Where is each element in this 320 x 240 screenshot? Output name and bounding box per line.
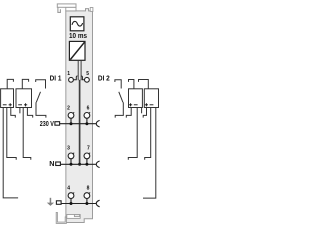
rail continuation hook right (PE) — [96, 200, 99, 207]
wire: G1 stub mid (to N row) — [7, 108, 16, 160]
right circuit — [115, 80, 159, 199]
wire: G2 stub mid (to N row) — [23, 108, 31, 160]
rail continuation hook right (N) — [96, 161, 99, 168]
G2 polarity signs — [18, 103, 27, 106]
module foot notch — [67, 215, 80, 219]
svg-text:2: 2 — [67, 105, 70, 111]
wire: G4 stub left (to L row) — [143, 108, 146, 118]
wire: G2 top hook — [22, 79, 28, 88]
node 6 junction — [85, 122, 88, 125]
G4 polarity signs — [145, 103, 154, 106]
wire: G4 top hook — [139, 80, 149, 89]
switch S2 bottom wire — [115, 102, 123, 117]
wire: G4 stub mid (to N row) — [145, 108, 151, 160]
terminal 1 (DI1 input clamp) — [67, 71, 77, 82]
terminal 7 — [84, 146, 90, 165]
svg-text:DI 1: DI 1 — [50, 74, 62, 83]
wire: G2 stub right (to L row) — [27, 108, 32, 118]
svg-text:8: 8 — [87, 185, 90, 191]
wire: G3 stub mid (to N row) — [128, 108, 137, 160]
terminal 3 — [67, 146, 74, 165]
wire: G1 top hook — [7, 79, 13, 88]
terminal 4 — [67, 185, 74, 203]
module foot notch tab — [74, 215, 79, 217]
left circuit — [1, 79, 46, 197]
switch S1 bottom wire — [36, 102, 46, 117]
isolation diagonal stroke — [70, 42, 84, 59]
svg-text:3: 3 — [67, 146, 70, 152]
wire: G1 stub right (to L row) — [11, 108, 16, 118]
terminal 6 — [84, 105, 90, 123]
wire: G3 stub left (to L row) — [126, 108, 131, 118]
module latch leg hook — [58, 7, 61, 12]
AC filter box U1 — [70, 17, 84, 31]
plug connector N — [56, 162, 61, 166]
svg-text:10 ms: 10 ms — [69, 31, 87, 40]
node 2 junction — [70, 122, 73, 125]
svg-text:5: 5 — [86, 71, 89, 77]
internal bus wire (center vertical) — [79, 80, 81, 165]
node: bus to N rail junction — [78, 163, 81, 166]
svg-text:DI 2: DI 2 — [98, 74, 110, 83]
svg-text:230 V: 230 V — [40, 119, 54, 128]
plug connector 230V — [55, 122, 60, 126]
wire: G4 stub right (to PE row) — [143, 108, 156, 199]
G1 polarity signs — [3, 103, 12, 106]
module body K1 (I/O terminal block outline) — [66, 9, 93, 223]
galvanic isolation box U2 — [69, 41, 85, 60]
module DIN-rail J latch — [56, 212, 66, 223]
load G2 (box with - +) — [16, 89, 32, 108]
plug connector PE — [56, 201, 61, 205]
svg-text:1: 1 — [67, 71, 70, 77]
switch S1 top hook — [36, 80, 46, 89]
load G1 (box with - +) — [1, 89, 14, 108]
module top-left shoulder — [66, 7, 76, 11]
wire: G3 top hook — [129, 80, 134, 89]
wire: G3 stub right (dead end) — [141, 108, 143, 114]
G3 polarity signs — [129, 103, 138, 106]
load G3 (box with + -) — [129, 89, 143, 108]
rail continuation hook right (L) — [96, 120, 99, 127]
terminal 5 (DI2 input clamp) — [81, 71, 89, 82]
internal bus wire pair from isolation box — [77, 60, 79, 80]
switch S2 top hook — [115, 80, 121, 89]
node 7 junction — [85, 163, 88, 166]
230V L rail (row 2) — [60, 123, 97, 125]
terminal 2 — [67, 105, 74, 123]
switch S1 blade — [36, 92, 40, 103]
AC sine symbol inside U1 — [72, 21, 83, 26]
node 4 junction — [70, 202, 73, 205]
svg-text:4: 4 — [67, 185, 70, 191]
functional earth arrow — [47, 198, 54, 206]
svg-text:7: 7 — [87, 146, 90, 152]
svg-text:6: 6 — [87, 105, 90, 111]
PE rail (row 4) — [61, 203, 96, 205]
svg-text:N: N — [49, 159, 54, 168]
N rail (row 3) — [60, 163, 96, 165]
module top latch tab — [57, 4, 76, 7]
node 8 junction — [85, 202, 88, 205]
wire: G1 stub left (to PE row) — [3, 108, 18, 198]
wire: G2 stub left (dead end) — [19, 108, 21, 114]
switch S2 blade — [119, 92, 123, 103]
load G4 (box with + -) — [144, 89, 158, 108]
node 3 junction — [70, 163, 73, 166]
terminal 8 — [84, 185, 90, 203]
module top-right tower lug — [90, 8, 93, 12]
